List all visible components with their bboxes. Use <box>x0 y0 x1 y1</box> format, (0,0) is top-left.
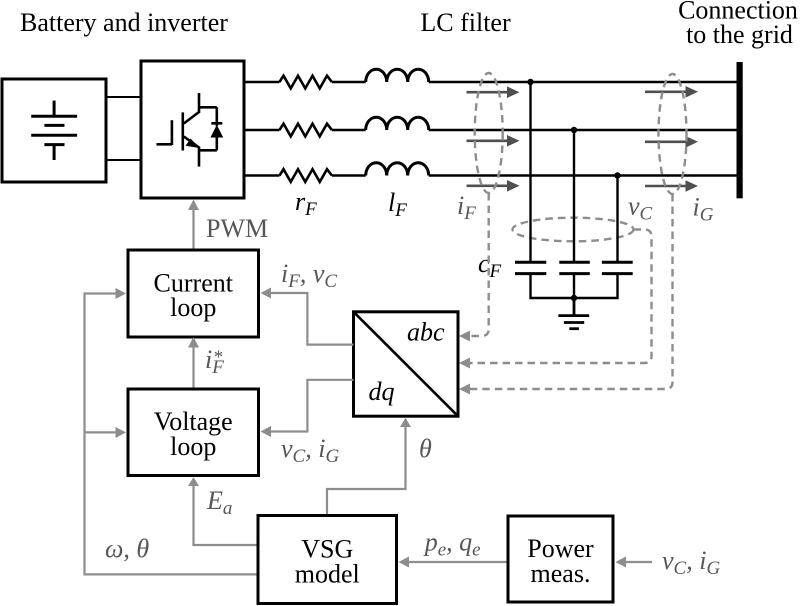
label vC,iG right <box>662 546 720 579</box>
svg-text:vC, iG: vC, iG <box>662 546 720 579</box>
wire cap3 drop <box>616 176 618 262</box>
label pe,qe <box>423 528 481 561</box>
svg-text:Battery and inverter: Battery and inverter <box>20 8 228 37</box>
label vC (cap voltage) <box>628 192 653 225</box>
label Power meas <box>527 534 594 588</box>
IGBT Q1 <box>157 93 223 167</box>
iG current arrow phase A <box>645 86 698 98</box>
IGBT diode triangle <box>210 125 223 138</box>
wire phase B resistor to inductor <box>332 129 366 131</box>
battery box <box>2 79 106 182</box>
iG current arrow phase C <box>645 180 698 192</box>
svg-text:iF, vC: iF, vC <box>281 259 337 292</box>
voltage loop box <box>128 389 259 476</box>
label lF <box>388 188 407 221</box>
svg-text:loop: loop <box>170 293 216 322</box>
IGBT emitter arrowhead <box>186 139 200 148</box>
svg-text:θ: θ <box>419 434 432 463</box>
label rF <box>295 187 317 220</box>
svg-text:loop: loop <box>170 432 216 461</box>
label iF (filter current) <box>457 191 476 224</box>
svg-text:to the grid: to the grid <box>686 20 793 49</box>
svg-text:model: model <box>295 559 360 588</box>
title Battery and inverter <box>20 8 228 37</box>
svg-text:vC: vC <box>628 192 653 225</box>
wire cap2 drop <box>573 130 575 261</box>
arrowhead iF into abc <box>459 331 470 342</box>
inverter box <box>141 61 244 198</box>
iF current arrow phase C <box>467 180 520 192</box>
wire phase A inductor to grid bus <box>429 81 737 83</box>
grid bus bar <box>737 62 743 198</box>
svg-text:abc: abc <box>407 318 445 347</box>
wire phase C inductor to grid bus <box>429 174 737 176</box>
node phase A to cap1 <box>527 79 533 85</box>
inductor lF phase B <box>366 117 429 130</box>
capacitor C1 <box>515 262 546 273</box>
wire phase C resistor to inductor <box>332 174 366 176</box>
resistor rF phase C <box>280 169 332 182</box>
dashed vC measurement line <box>463 230 652 364</box>
capacitor C3 <box>602 262 633 273</box>
wire iF* voltage loop to current loop <box>188 337 199 389</box>
wire theta VSG to dq <box>327 418 411 516</box>
label iF,vC <box>281 259 337 292</box>
arrowhead iG into abc <box>459 384 470 395</box>
node phase B to cap2 <box>571 127 577 133</box>
wire phase A resistor to inductor <box>332 81 366 83</box>
svg-text:PWM: PWM <box>206 214 268 243</box>
iG current arrow phase B <box>645 136 698 148</box>
wire phase B inverter to resistor <box>244 129 280 131</box>
svg-text:ω, θ: ω, θ <box>105 534 149 563</box>
svg-text:Ea: Ea <box>206 486 232 519</box>
iF measurement ellipse <box>475 73 503 193</box>
label Ea <box>206 486 232 519</box>
svg-text:dq: dq <box>369 377 395 406</box>
vC measurement ellipse <box>513 218 634 242</box>
resistor rF phase B <box>280 124 332 137</box>
svg-text:lF: lF <box>388 188 407 221</box>
wire phase B inductor to grid bus <box>429 129 737 131</box>
label iF* <box>205 345 224 378</box>
svg-text:pe, qe: pe, qe <box>423 528 481 561</box>
inductor lF phase C <box>366 163 429 176</box>
svg-text:iF: iF <box>457 191 476 224</box>
wire Ea VSG to voltage loop <box>188 477 258 545</box>
wire omega theta feedback <box>85 288 259 574</box>
current loop box <box>128 250 259 337</box>
svg-text:cF: cF <box>478 249 502 282</box>
svg-text:iG: iG <box>693 193 714 226</box>
iF current arrow phase B <box>467 135 520 147</box>
label theta <box>419 434 432 463</box>
abc dq transform box <box>354 312 459 416</box>
dashed iG measurement line <box>463 194 673 389</box>
inductor lF phase A <box>366 69 429 82</box>
label iG (grid current) <box>693 193 714 226</box>
capacitor C2 <box>559 262 590 273</box>
wire battery to inverter top <box>106 96 141 98</box>
svg-text:meas.: meas. <box>531 559 591 588</box>
wire vC,iG into power meas <box>616 557 653 568</box>
svg-text:iF*: iF* <box>205 345 224 378</box>
wire cap1 drop <box>529 82 531 261</box>
VSG model box <box>258 516 397 604</box>
wire phase C inverter to resistor <box>244 174 280 176</box>
svg-text:rF: rF <box>295 187 317 220</box>
label vC,iG <box>281 434 339 467</box>
wire cap bus <box>531 274 618 298</box>
node phase C to cap3 <box>614 172 620 178</box>
svg-text:vC, iG: vC, iG <box>281 434 339 467</box>
label PWM <box>206 214 268 243</box>
wire vC,iG dq to voltage loop <box>261 380 354 437</box>
wire iF,vC dq to current loop <box>261 288 354 345</box>
iG measurement ellipse <box>659 74 687 194</box>
label omega, theta <box>105 534 149 563</box>
wire phase A inverter to resistor <box>244 81 280 83</box>
arrowhead vC into abc <box>459 358 470 369</box>
title Connection to the grid <box>678 0 798 49</box>
wire battery to inverter bottom <box>106 159 141 161</box>
iF current arrow phase A <box>467 86 520 98</box>
wire PWM <box>188 200 199 251</box>
label abc <box>407 318 445 347</box>
label dq <box>369 377 395 406</box>
power meas box <box>508 516 613 602</box>
ground <box>558 298 589 329</box>
wire pe,qe power meas to VSG <box>399 557 509 568</box>
title LC filter <box>420 8 511 37</box>
svg-text:LC filter: LC filter <box>420 8 511 37</box>
label Current loop <box>154 268 234 322</box>
dashed iF measurement line <box>463 193 489 336</box>
label VSG model <box>295 535 360 589</box>
battery symbol <box>31 101 77 160</box>
wire omega theta branch to voltage loop <box>85 427 127 438</box>
node cap bus center <box>571 295 577 301</box>
label cF <box>478 249 502 282</box>
label Voltage loop <box>154 407 233 461</box>
resistor rF phase A <box>280 76 332 89</box>
